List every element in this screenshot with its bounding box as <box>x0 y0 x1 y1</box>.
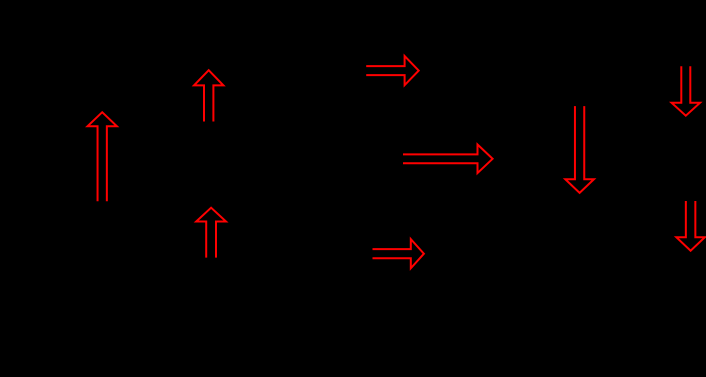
right arrow A (top) <box>366 56 419 85</box>
right arrow B (middle, long) <box>403 145 493 174</box>
up arrow 3 (lower middle) <box>196 208 226 258</box>
up arrow 1 (left) <box>88 112 117 201</box>
up arrow 2 (upper middle) <box>194 70 223 121</box>
right arrow C (bottom) <box>373 239 424 268</box>
down arrow F (lower right edge) <box>676 201 705 251</box>
down arrow E (upper right edge) <box>672 66 701 115</box>
down arrow D (long, center-right) <box>565 106 594 193</box>
